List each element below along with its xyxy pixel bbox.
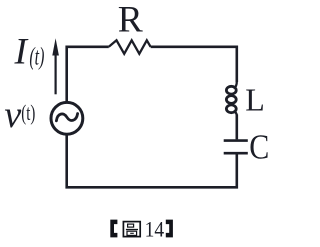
capacitor C bottom plate	[224, 152, 248, 155]
caption character 圖 outer box	[123, 222, 140, 237]
svg-text:C: C	[249, 129, 269, 167]
caption character 圖 inner top mouth	[128, 224, 134, 227]
wire: capacitor down, bottom wire, left vertical up to source	[67, 135, 237, 188]
inductor bottom connector	[234, 111, 237, 116]
sine symbol inside source	[56, 114, 77, 121]
svg-text:(t): (t)	[29, 44, 44, 71]
caption character 圖 bottom box	[127, 231, 137, 235]
inductor L coil loop 1	[226, 86, 236, 94]
caption character 圖 middle stroke	[126, 229, 138, 231]
wire: left vertical + top-left segment	[67, 47, 109, 102]
svg-text:v: v	[4, 94, 21, 136]
resistor R1 zigzag	[109, 40, 151, 54]
caption left bracket 【	[110, 220, 117, 238]
svg-text:R: R	[118, 0, 143, 40]
current arrow head	[52, 38, 59, 55]
wire: top-right segment + right vertical down to inductor	[151, 47, 237, 82]
svg-text:14: 14	[145, 217, 165, 242]
capacitor C top plate	[224, 139, 248, 142]
inductor L coil loop 2	[226, 96, 236, 104]
current arrow shaft	[54, 52, 56, 94]
wire: inductor to capacitor	[236, 115, 239, 140]
svg-text:I: I	[14, 31, 29, 72]
svg-text:L: L	[245, 81, 265, 117]
voltage source U1 circle	[51, 102, 83, 134]
inductor top connector	[234, 81, 237, 88]
caption right bracket 】	[166, 220, 173, 238]
inductor L coil loop 3	[226, 105, 236, 113]
caption character 圖 bottom inner tick	[130, 232, 134, 234]
svg-text:(t): (t)	[21, 100, 35, 125]
